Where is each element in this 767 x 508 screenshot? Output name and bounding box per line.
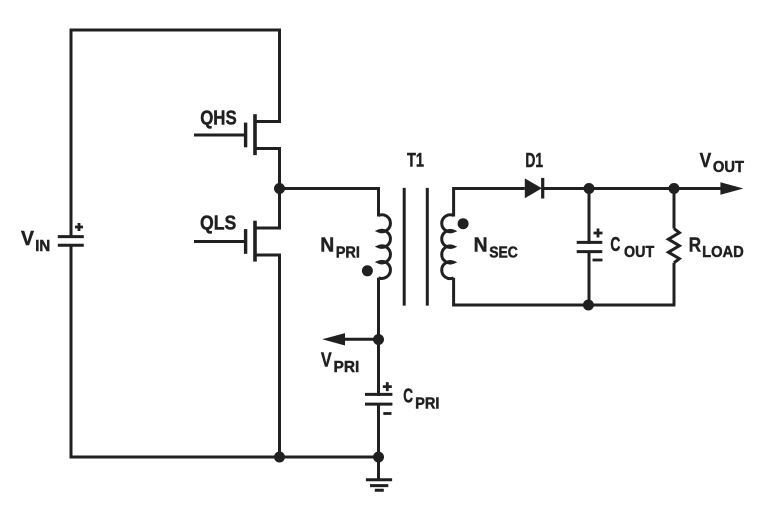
svg-text:LOAD: LOAD xyxy=(702,244,744,261)
svg-text:OUT: OUT xyxy=(624,244,655,261)
ground symbol stem xyxy=(377,457,380,480)
svg-text:N: N xyxy=(320,235,334,257)
wire: RLOAD branch lower xyxy=(673,263,676,305)
transistor Q: QLS gate bar xyxy=(244,229,247,254)
diode D1 triangle xyxy=(525,178,542,198)
plus sign COUT xyxy=(594,229,603,238)
node: VPRI junction dot xyxy=(373,334,384,345)
inductor NPRI winding xyxy=(379,215,391,279)
inductor NSEC winding xyxy=(442,215,454,279)
transistor Q: QHS gate bar xyxy=(244,123,247,148)
svg-text:PRI: PRI xyxy=(334,359,360,376)
svg-text:R: R xyxy=(689,235,702,257)
wire: primary winding to VPRI node xyxy=(377,278,380,340)
wire: secondary top to D1 anode xyxy=(454,189,525,217)
svg-text:PRI: PRI xyxy=(336,245,360,262)
wire: VPRI arrow shaft xyxy=(343,338,379,341)
transformer primary phasing dot xyxy=(362,265,373,276)
wire: QLS gate lead xyxy=(194,240,246,243)
wire: VPRI node to CPRI xyxy=(377,340,380,397)
plus sign CPRI xyxy=(383,382,392,391)
wire: CPRI to ground rail xyxy=(377,404,380,457)
wire: QHS gate lead xyxy=(194,134,246,137)
minus sign COUT xyxy=(593,259,603,262)
VPRI arrowhead xyxy=(322,333,345,345)
svg-text:D1: D1 xyxy=(525,150,543,172)
svg-text:V: V xyxy=(700,150,712,172)
wire: QLS source down to ground rail xyxy=(255,255,280,457)
transistor Q: QLS channel bar xyxy=(253,221,257,262)
wire: secondary bottom rail xyxy=(454,278,676,305)
transformer T1 core lines xyxy=(404,188,427,306)
diode D1 cathode bar xyxy=(541,178,544,199)
node: RLOAD top junction dot xyxy=(669,183,680,194)
svg-text:OUT: OUT xyxy=(713,159,745,176)
svg-text:PRI: PRI xyxy=(415,395,439,412)
transistor Q: QHS channel bar xyxy=(253,114,257,155)
wire: COUT branch upper xyxy=(588,189,591,245)
svg-text:IN: IN xyxy=(35,238,50,255)
resistor RLOAD zigzag xyxy=(668,229,679,263)
capacitor VIN source plates xyxy=(58,237,84,246)
wire: VIN bottom rail xyxy=(71,245,379,457)
wire: QLS drain from switch node xyxy=(255,189,280,229)
svg-text:V: V xyxy=(321,349,332,371)
plus sign VIN xyxy=(75,223,83,231)
transformer secondary phasing dot xyxy=(458,218,469,229)
wire: RLOAD branch upper xyxy=(673,189,676,229)
svg-text:V: V xyxy=(21,228,35,250)
node: CPRI ground junction dot xyxy=(373,452,384,463)
minus sign CPRI xyxy=(383,412,391,415)
VOUT arrowhead xyxy=(720,182,743,194)
wire: COUT branch lower xyxy=(588,252,591,305)
capacitor COUT plates xyxy=(577,242,603,251)
wire: switch node to primary top xyxy=(280,189,379,217)
wire: D1 cathode to VOUT arrow xyxy=(543,187,721,190)
capacitor CPRI plates xyxy=(365,394,392,404)
ground symbol bars xyxy=(366,480,392,491)
node: COUT top junction dot xyxy=(584,183,595,194)
wire: QHS source to switch node xyxy=(255,149,280,189)
node: switch node junction dot xyxy=(274,183,285,194)
svg-text:C: C xyxy=(403,385,413,407)
svg-text:QLS: QLS xyxy=(200,213,236,235)
svg-text:C: C xyxy=(610,234,620,256)
node: QLS source ground junction dot xyxy=(274,452,285,463)
svg-text:SEC: SEC xyxy=(489,244,518,261)
node: COUT bottom junction dot xyxy=(583,300,594,311)
svg-text:QHS: QHS xyxy=(200,108,237,130)
wire: VIN top rail to QHS drain xyxy=(71,30,280,238)
svg-text:T1: T1 xyxy=(407,151,424,172)
svg-text:N: N xyxy=(474,235,488,257)
